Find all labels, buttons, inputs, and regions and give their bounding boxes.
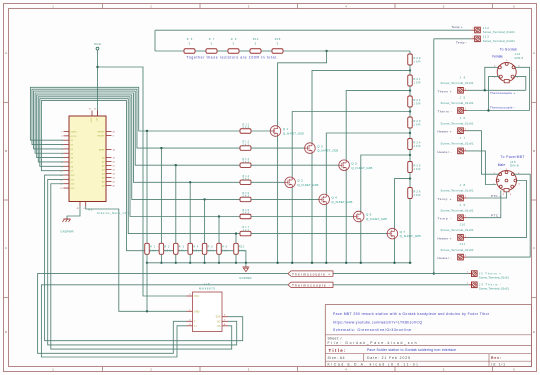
resistor R11 2k2 gate <box>240 124 251 134</box>
svg-text:J4: J4 <box>460 75 466 79</box>
svg-text:10k: 10k <box>208 250 215 253</box>
svg-text:J5: J5 <box>460 96 466 100</box>
svg-text:B: B <box>533 149 535 153</box>
wire Temp- to J13 <box>434 38 471 40</box>
junction GND bus R12 <box>235 262 237 264</box>
wire riser pulldown R4 <box>189 182 191 243</box>
svg-text:2k2: 2k2 <box>243 212 250 215</box>
resistor R4 10k <box>188 243 200 254</box>
junction Q7 drain <box>409 177 411 179</box>
junction Q3 source <box>311 262 313 264</box>
resistor R10 0R <box>250 38 261 53</box>
wire VCC branch to U5 <box>98 67 187 296</box>
svg-text:10k: 10k <box>193 250 200 253</box>
svg-text:J11: J11 <box>460 242 466 246</box>
svg-text:Pace Solder station to Gordak: Pace Solder station to Gordak soldering … <box>367 348 456 352</box>
junction gate row 4 pulldown <box>189 181 191 183</box>
svg-text:R22: R22 <box>413 98 421 102</box>
junction Q1 drain <box>325 50 327 52</box>
wire riser pulldown R3 <box>175 165 177 243</box>
svg-text:Thermocouple -: Thermocouple - <box>490 106 515 110</box>
transistor Q5 Q_N-FET_G05 <box>339 160 373 171</box>
wire Therm+ J4 to DIN-5 <box>467 89 526 91</box>
wire Q5 source to GND bus <box>345 171 347 263</box>
wire Q5 drain to ladder <box>346 91 410 160</box>
svg-text:A1: A1 <box>88 208 93 212</box>
svg-text:R10: R10 <box>253 38 259 41</box>
wire gate row 7 to Q7 <box>251 233 387 235</box>
junction GND bus R8 <box>218 262 220 264</box>
wire R2 to GND bus <box>160 254 162 262</box>
svg-text:B: B <box>5 149 7 153</box>
svg-text:Q2: Q2 <box>297 179 303 183</box>
junction VCC branch <box>96 66 98 68</box>
resistor R3 10k <box>174 243 186 254</box>
svg-text:Size: A4: Size: A4 <box>328 356 345 360</box>
wire Q3 drain to ladder <box>312 70 410 142</box>
svg-text:AREF: AREF <box>99 149 105 152</box>
ground GNDREF <box>239 263 252 280</box>
wire MCU ground pin <box>67 206 80 219</box>
power flag VCC <box>94 42 102 50</box>
connector J3 screw terminal <box>467 282 510 291</box>
wire GND riser to bus <box>146 263 148 312</box>
svg-text:Temp +: Temp + <box>438 197 452 201</box>
wire Heater+ J6 to DIN-8 pin2 <box>467 131 499 175</box>
title block <box>325 305 531 367</box>
wire DIN-5 pin2 lead <box>485 67 498 90</box>
wire Q6 source to GND bus <box>360 222 362 263</box>
svg-text:VCC: VCC <box>194 295 199 298</box>
wire gate row 5 to Q4 <box>251 198 319 200</box>
junction Q6 source <box>360 262 362 264</box>
resistor R17 2k2 gate <box>240 226 251 236</box>
connector J9 screw terminal <box>438 203 474 221</box>
junction Therm+ <box>484 89 486 91</box>
svg-text:Id: 1/1: Id: 1/1 <box>491 362 505 366</box>
resistor R15 2k2 gate <box>240 192 251 202</box>
wire Heater- J11 to DIN-8 pin5 <box>467 174 531 257</box>
svg-text:To Gordak: To Gordak <box>500 47 517 51</box>
junction Q5 drain <box>409 89 411 91</box>
resistor R25 10R <box>408 162 421 173</box>
svg-text:Screw_Terminal_01x01: Screw_Terminal_01x01 <box>479 276 509 280</box>
resistor R20 10R <box>408 54 421 65</box>
transistor Q1 Q_N-FET_G05 <box>270 126 304 137</box>
wire ladder segment <box>409 86 411 96</box>
wire gate row 1 to Q1 <box>251 130 270 132</box>
svg-text:2k2: 2k2 <box>243 195 250 198</box>
svg-text:J7: J7 <box>460 136 466 140</box>
svg-text:Therm -: Therm - <box>438 110 452 114</box>
resistor R24 10R <box>408 139 421 150</box>
resistor R5 10k <box>202 243 214 254</box>
resistor R7 0R <box>206 38 217 53</box>
wire PTC- J9 to DIN-8 <box>467 190 501 217</box>
wire Q2 source to GND bus <box>291 188 293 263</box>
resistor R12 10k <box>234 243 246 254</box>
wire chain to R20 <box>409 51 411 54</box>
svg-text:R21: R21 <box>413 77 421 81</box>
resistor R22 10R <box>408 96 421 107</box>
resistor R12 2k2 gate <box>240 141 251 151</box>
svg-text:Q_N-FET_G05: Q_N-FET_G05 <box>366 217 387 221</box>
junction gate row 6 pulldown <box>218 215 220 217</box>
junction Q6 drain <box>409 154 411 156</box>
svg-text:RESET: RESET <box>98 136 106 138</box>
svg-text:Temp -: Temp - <box>438 217 452 221</box>
junction GND bus row8 drop <box>245 262 247 264</box>
svg-text:CS: CS <box>217 325 221 328</box>
junction Q4 drain <box>409 132 411 134</box>
svg-text:Male: Male <box>498 163 506 167</box>
svg-text:R12: R12 <box>239 246 245 249</box>
wire Heater- J7 to DIN-8 pin1 <box>467 151 497 185</box>
wire Q4 source to GND bus <box>325 205 327 263</box>
svg-text:Temp -: Temp - <box>456 40 467 44</box>
svg-text:Screw_Terminal_01x01: Screw_Terminal_01x01 <box>441 81 474 85</box>
junction GND bus R4 <box>189 262 191 264</box>
svg-text:SO: SO <box>217 320 221 323</box>
junction gate row 1 pulldown <box>146 130 148 132</box>
svg-text:J8: J8 <box>460 183 466 187</box>
svg-text:+3V3: +3V3 <box>91 117 93 123</box>
svg-text:A: A <box>533 51 535 55</box>
svg-text:R5: R5 <box>208 246 214 249</box>
wire SPI CS MCU to U5 <box>51 184 232 349</box>
svg-text:R25: R25 <box>413 163 421 167</box>
transistor Q2 Q_N-FET_G05 <box>285 177 319 188</box>
svg-text:Q_N-FET_G05: Q_N-FET_G05 <box>297 183 318 187</box>
wire MCU pin to U5 GND <box>86 206 187 311</box>
svg-text:Q_N-FET_G05: Q_N-FET_G05 <box>317 149 338 153</box>
junction Q7 source <box>393 262 395 264</box>
wire Temp+ riser to chain <box>154 30 156 51</box>
svg-text:Rev:: Rev: <box>491 356 501 360</box>
svg-text:2k2: 2k2 <box>243 229 250 232</box>
wire SPI SO MCU to U5 <box>48 179 237 345</box>
svg-text:R1: R1 <box>150 246 156 249</box>
wire riser pulldown R1 <box>146 131 148 243</box>
svg-text:R3: R3 <box>179 246 185 249</box>
wire riser pulldown R2 <box>160 148 162 243</box>
svg-text:GNDREF: GNDREF <box>239 276 252 280</box>
connector J6 screw terminal <box>438 116 474 134</box>
wire riser pulldown R8 <box>218 217 220 244</box>
wire riser pulldown R12 <box>235 234 237 244</box>
svg-text:Therm +: Therm + <box>438 89 452 93</box>
wire Q3 source to GND bus <box>311 153 313 262</box>
svg-text:Screw_Terminal_01x01: Screw_Terminal_01x01 <box>441 121 474 125</box>
svg-text:Female: Female <box>492 55 503 59</box>
transistor Q7 Q_N-FET_G05 <box>387 228 421 239</box>
svg-text:10R: 10R <box>413 193 420 197</box>
wire R5 to GND bus <box>204 254 206 262</box>
svg-text:D: D <box>5 330 7 334</box>
svg-text:R23: R23 <box>413 119 421 123</box>
svg-text:RESET: RESET <box>98 132 106 134</box>
wire ladder segment <box>409 65 411 75</box>
svg-text:Screw_Terminal_01x01: Screw_Terminal_01x01 <box>479 287 509 291</box>
svg-text:+5V: +5V <box>97 117 99 121</box>
svg-text:Q_N-FET_G05: Q_N-FET_G05 <box>351 166 372 170</box>
svg-text:MAX6675: MAX6675 <box>199 286 215 290</box>
wire gate row 6 to Q6 <box>251 216 353 218</box>
junction Q5 source <box>345 262 347 264</box>
svg-text:Q_N-FET_G05: Q_N-FET_G05 <box>283 132 304 136</box>
junction Q1 source <box>276 262 278 264</box>
wire R8 to GND bus <box>218 254 220 262</box>
transistor Q4 Q_N-FET_G05 <box>319 194 353 205</box>
svg-text:R24: R24 <box>413 140 421 144</box>
wire Q1 drain to ladder <box>278 51 327 126</box>
wire net D7 loop from MCU to gate row 6 <box>38 97 240 217</box>
wire Therm- J5 to DIN-5 <box>467 110 530 112</box>
junction GND bus R2 <box>160 262 162 264</box>
svg-text:Sheet: /: Sheet: / <box>328 337 342 341</box>
junction Q3 drain <box>409 69 411 71</box>
wire SPI SCK MCU to U5 <box>45 175 243 341</box>
svg-text:A: A <box>5 51 7 55</box>
junction Q2 source <box>291 262 293 264</box>
junction GND bus R3 <box>175 262 177 264</box>
resistor R13 2k2 gate <box>240 158 251 168</box>
junction gate row 3 pulldown <box>175 164 177 166</box>
svg-text:To Pace/MBT: To Pace/MBT <box>501 155 525 159</box>
svg-text:GNDPWR: GNDPWR <box>61 230 74 234</box>
wire VCC vertical to MCU <box>97 50 99 116</box>
svg-text:Date: 21 Feb 2025: Date: 21 Feb 2025 <box>367 356 410 360</box>
svg-text:Heater +: Heater + <box>438 130 452 134</box>
wire net D3 loop from MCU to gate row 2 <box>32 89 240 148</box>
svg-text:10R: 10R <box>413 81 420 85</box>
svg-text:C: C <box>5 246 7 250</box>
svg-text:10k: 10k <box>150 250 157 253</box>
junction GND bus R5 <box>203 262 205 264</box>
connector J2 screw terminal <box>467 271 510 280</box>
connector J14 DIN-5 female <box>492 47 523 82</box>
wire Heater+ J10 to DIN-8 right pin <box>467 181 527 238</box>
wire Temp- long vertical <box>433 39 435 274</box>
svg-text:2k2: 2k2 <box>243 178 250 181</box>
wire R4 to GND bus <box>189 254 191 262</box>
svg-text:Q7: Q7 <box>400 230 406 234</box>
svg-text:10R: 10R <box>413 144 420 148</box>
wire DIN-5 pin3 lead <box>514 77 526 91</box>
connector J13 screw terminal <box>471 35 516 43</box>
connector J15 DIN-8 male <box>493 155 524 196</box>
ground GNDPWR <box>61 219 74 234</box>
wire net D6 loop from MCU to gate row 5 <box>37 95 240 199</box>
wire ladder segment <box>409 173 411 188</box>
resistor R8 10k <box>217 243 229 254</box>
svg-text:D0/RX: D0/RX <box>71 132 78 134</box>
wire U5 T+ to thermocouple- row <box>41 285 468 357</box>
svg-text:10k: 10k <box>222 250 229 253</box>
wire Q6 drain to ladder <box>361 155 410 211</box>
svg-text:PTC +: PTC + <box>491 194 501 198</box>
wire R1 to GND bus <box>146 254 148 262</box>
svg-text:Thermocouple -: Thermocouple - <box>292 284 330 288</box>
svg-text:Q3: Q3 <box>317 144 323 148</box>
thermocouple amplifier U5 MAX6675 <box>187 282 229 331</box>
svg-text:T-: T- <box>194 320 196 323</box>
svg-text:Screw_Terminal_01x01: Screw_Terminal_01x01 <box>441 228 474 232</box>
junction Therm- <box>487 109 489 111</box>
svg-text:Heater -: Heater - <box>438 256 452 260</box>
wire net D2 loop from MCU to gate row 1 <box>30 87 240 140</box>
wire net D9 loop from MCU to gate row 8 <box>41 101 246 263</box>
svg-text:Heater +: Heater + <box>438 236 452 240</box>
svg-text:Screw_Terminal_01x01: Screw_Terminal_01x01 <box>483 30 515 34</box>
wire ladder segment <box>409 150 411 162</box>
svg-text:10R: 10R <box>413 102 420 106</box>
svg-text:Screw_Terminal_01x01: Screw_Terminal_01x01 <box>441 208 474 212</box>
wire R3 to GND bus <box>175 254 177 262</box>
resistor R16 2k2 gate <box>240 209 251 219</box>
svg-text:Pace MBT 250 rework station wi: Pace MBT 250 rework station with a Gorda… <box>333 312 490 316</box>
svg-text:D: D <box>533 330 535 334</box>
svg-text:J9: J9 <box>460 203 466 207</box>
svg-text:Q5: Q5 <box>351 161 357 165</box>
wire U5 T- to thermocouple+ row <box>38 274 469 354</box>
transistor Q6 Q_N-FET_G05 <box>353 211 387 222</box>
wire R26 to GND bus <box>409 199 411 263</box>
wire ladder segment <box>409 128 411 139</box>
svg-text:Together these resistors are 1: Together these resistors are 100R in tot… <box>187 56 278 60</box>
svg-text:https://www.youtube.com/watch?: https://www.youtube.com/watch?v=LTK8hzoV… <box>333 321 422 325</box>
svg-text:Screw_Terminal_01x01: Screw_Terminal_01x01 <box>441 189 474 193</box>
connector J12 screw terminal <box>471 26 516 34</box>
svg-text:PTC -: PTC - <box>491 213 501 217</box>
wire chain segments <box>155 50 410 52</box>
junction gate row 7 pulldown <box>235 232 237 234</box>
wire net D5 loop from MCU to gate row 4 <box>35 93 240 182</box>
svg-text:Arduino_Nano_v3.x: Arduino_Nano_v3.x <box>97 211 130 215</box>
connector J5 screw terminal <box>438 96 474 114</box>
svg-text:Temp +: Temp + <box>452 25 463 29</box>
wire net D4 loop from MCU to gate row 3 <box>34 91 240 165</box>
wire Q7 drain to ladder <box>395 179 411 229</box>
connector J8 screw terminal <box>438 183 474 201</box>
svg-text:2k2: 2k2 <box>243 143 250 146</box>
wire Q4 drain to ladder <box>326 133 410 194</box>
connector J11 screw terminal <box>438 242 474 260</box>
svg-text:10k: 10k <box>239 250 246 253</box>
svg-text:2k2: 2k2 <box>243 160 250 163</box>
svg-text:J6: J6 <box>460 116 466 120</box>
svg-text:D1/TX: D1/TX <box>71 136 78 138</box>
svg-text:GND: GND <box>194 310 200 313</box>
junction Q4 source <box>325 262 327 264</box>
resistor R9 0R <box>228 38 239 53</box>
svg-text:C: C <box>533 246 535 250</box>
wire GND bus <box>147 262 412 264</box>
svg-text:Schematic: Greensonline/Gr33no: Schematic: Greensonline/Gr33nonline <box>333 328 411 332</box>
svg-text:Q1: Q1 <box>283 127 289 131</box>
svg-text:VCC: VCC <box>94 42 102 46</box>
svg-text:10R: 10R <box>413 60 420 64</box>
wire Q7 source to GND bus <box>394 239 396 263</box>
resistor R6 0R <box>184 38 195 53</box>
svg-text:Q6: Q6 <box>366 213 372 217</box>
resistor R23 10R <box>408 117 421 128</box>
connector J10 screw terminal <box>438 223 474 241</box>
svg-text:SCK: SCK <box>216 316 221 319</box>
wire R12 to GND bus <box>235 254 237 262</box>
svg-text:Thermocouple +: Thermocouple + <box>490 91 515 95</box>
svg-text:DIN-8: DIN-8 <box>510 163 519 167</box>
junction U5 GND riser <box>146 310 148 312</box>
svg-text:J10: J10 <box>460 223 466 227</box>
svg-text:Heater -: Heater - <box>438 150 452 154</box>
svg-text:R26: R26 <box>413 189 421 193</box>
resistor R26 10R <box>408 188 421 199</box>
svg-text:Screw_Terminal_01x01: Screw_Terminal_01x01 <box>483 39 515 43</box>
junction ladder GND <box>409 262 411 264</box>
wire gate row 4 to Q2 <box>251 181 285 183</box>
connector J4 screw terminal <box>438 75 474 93</box>
svg-text:KiCad E.D.A. kicad (6.0.11-0): KiCad E.D.A. kicad (6.0.11-0) <box>328 362 418 366</box>
svg-text:Thermocouple +: Thermocouple + <box>292 272 330 276</box>
svg-text:10R: 10R <box>413 167 420 171</box>
wire riser pulldown R5 <box>204 199 206 243</box>
svg-text:10k: 10k <box>164 250 171 253</box>
global label Thermocouple - <box>288 282 333 288</box>
resistor R2 10k <box>159 243 171 254</box>
wire DIN-5 pin4 lead <box>515 67 529 110</box>
wire gate row 2 to Q3 <box>251 147 305 149</box>
svg-text:10R: 10R <box>413 123 420 127</box>
svg-text:10k: 10k <box>179 250 186 253</box>
junction gate row 5 pulldown <box>203 198 205 200</box>
resistor R14 2k2 gate <box>240 175 251 185</box>
svg-text:DIN-5: DIN-5 <box>515 56 524 60</box>
connector J7 screw terminal <box>438 136 474 154</box>
microcontroller A1 Arduino Nano <box>60 109 129 216</box>
wire gate row 3 to Q5 <box>251 164 339 166</box>
svg-text:Q4: Q4 <box>331 196 337 200</box>
global label Thermocouple + <box>288 271 333 277</box>
wire Q2 drain to ladder <box>292 112 410 178</box>
svg-text:R4: R4 <box>193 246 199 249</box>
svg-text:Screw_Terminal_01x01: Screw_Terminal_01x01 <box>441 142 474 146</box>
svg-text:Q_N-FET_G05: Q_N-FET_G05 <box>331 200 352 204</box>
svg-text:Screw_Terminal_01x01: Screw_Terminal_01x01 <box>441 101 474 105</box>
wire Q1 source to GND bus <box>277 136 279 262</box>
wire ladder segment <box>409 107 411 117</box>
junction Q2 drain <box>409 110 411 112</box>
wire PTC+ J8 to DIN-8 bottom pin <box>467 192 507 198</box>
junction gate row 2 pulldown <box>160 147 162 149</box>
resistor R18 0R <box>272 38 283 53</box>
wire net D8 loop from MCU to gate row 7 <box>40 99 240 234</box>
svg-text:R20: R20 <box>413 56 421 60</box>
svg-text:2k2: 2k2 <box>243 126 250 129</box>
svg-text:Screw_Terminal_01x01: Screw_Terminal_01x01 <box>441 248 474 252</box>
svg-text:R8: R8 <box>222 246 228 249</box>
resistor R21 10R <box>408 75 421 86</box>
svg-text:R2: R2 <box>164 246 170 249</box>
junction Temp- thermocouple <box>433 272 435 274</box>
junction GND bus R1 <box>146 262 148 264</box>
svg-text:R18: R18 <box>275 38 281 41</box>
wire DIN-5 pin1 lead <box>489 77 500 111</box>
transistor Q3 Q_N-FET_G05 <box>305 143 339 154</box>
resistor R1 10k <box>145 243 157 254</box>
wire Temp+ to J12 <box>155 29 471 31</box>
